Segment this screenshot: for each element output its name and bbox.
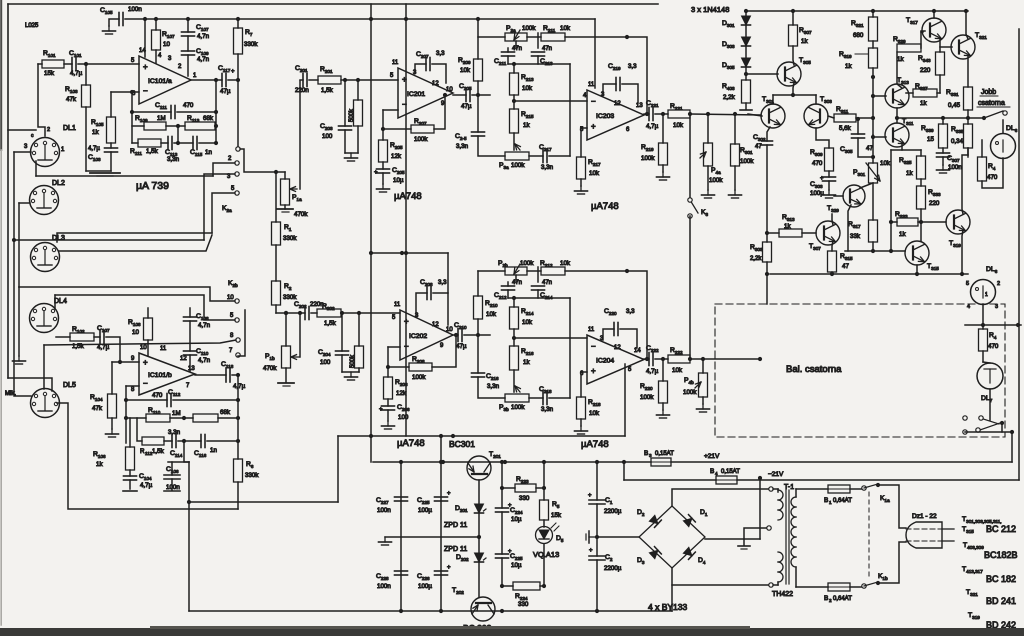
- terminal: [769, 487, 773, 587]
- wire: [871, 155, 875, 163]
- svg-text:1k: 1k: [784, 223, 791, 230]
- wire: [967, 148, 969, 155]
- ground: [103, 26, 116, 34]
- resistor R102: [70, 326, 94, 350]
- text 3x1N4148: [691, 5, 729, 14]
- capacitor C309: [840, 134, 873, 154]
- wire: [796, 567, 828, 587]
- svg-text:IC204: IC204: [596, 358, 614, 365]
- wire: [569, 64, 571, 156]
- svg-text:4,7n: 4,7n: [198, 357, 211, 364]
- svg-text:2: 2: [997, 281, 1000, 287]
- wire: [872, 11, 874, 17]
- wire: [383, 128, 411, 130]
- wire: [56, 336, 70, 338]
- svg-text:10µ: 10µ: [511, 516, 522, 523]
- svg-text:12: 12: [432, 322, 439, 328]
- ground: [702, 190, 715, 198]
- wire: [832, 241, 833, 251]
- svg-text:14: 14: [634, 348, 641, 354]
- potentiometer P301: [853, 160, 891, 183]
- resistor R339: [921, 124, 948, 148]
- svg-text:−21V: −21V: [768, 471, 784, 478]
- wire: [514, 370, 520, 392]
- resistor R224: [513, 582, 540, 608]
- resistor R317: [848, 220, 878, 242]
- contact 2: [228, 156, 239, 165]
- wire pin6: [111, 91, 139, 93]
- capacitor C1: [588, 493, 622, 515]
- wire: [131, 92, 133, 143]
- wire: [871, 242, 875, 253]
- transistor T307: [809, 221, 840, 251]
- node: [12, 238, 16, 242]
- resistor R210: [474, 296, 499, 319]
- capacitor C106: [164, 466, 180, 491]
- wire: [285, 368, 287, 382]
- svg-text:2,2k: 2,2k: [723, 94, 736, 101]
- resistor R2: [272, 281, 298, 305]
- switch K1a: [850, 483, 890, 503]
- resistor R217: [577, 157, 602, 179]
- wire: [512, 95, 516, 109]
- wire: [357, 80, 359, 153]
- wire mid row: [514, 100, 587, 102]
- svg-text:−: −: [143, 379, 148, 388]
- svg-text:47n: 47n: [542, 46, 552, 52]
- svg-text:2200µ: 2200µ: [604, 565, 622, 572]
- node: [369, 17, 408, 21]
- svg-text:10: 10: [132, 329, 139, 336]
- svg-text:B: B: [710, 468, 714, 475]
- wire: [793, 46, 794, 65]
- wire: [595, 462, 599, 611]
- svg-text:47µ: 47µ: [456, 343, 467, 350]
- connector DL1: [24, 125, 76, 167]
- svg-text:14: 14: [139, 48, 146, 54]
- wire: [170, 416, 193, 420]
- svg-text:470: 470: [812, 160, 823, 167]
- resistor R329: [893, 36, 921, 63]
- wire: [828, 181, 830, 190]
- ground: [345, 372, 358, 380]
- wire: [671, 453, 1012, 462]
- connector DL6b: [966, 266, 1000, 310]
- capacitor C110: [184, 348, 211, 364]
- wire: [155, 50, 157, 63]
- capacitor C216: [472, 373, 500, 390]
- wire: [453, 333, 458, 337]
- wire pin11 IC203: [594, 19, 596, 88]
- svg-text:12: 12: [614, 345, 621, 351]
- wire: [477, 95, 479, 132]
- wire: [536, 486, 546, 490]
- wire: [569, 298, 571, 398]
- wire to c7: [238, 310, 245, 356]
- ground: [377, 184, 390, 192]
- text uA748b: [591, 201, 619, 212]
- wire: [773, 95, 816, 104]
- wire: [110, 143, 112, 148]
- contact 7: [229, 348, 240, 357]
- wire speaker row: [895, 116, 984, 120]
- capacitor C303: [810, 177, 836, 197]
- resistor R220: [640, 381, 668, 403]
- resistor R101: [42, 50, 64, 77]
- wire: [240, 149, 285, 172]
- wire: [537, 33, 539, 48]
- ground: [278, 383, 294, 386]
- potentiometer P3a: [499, 152, 529, 170]
- svg-text:47n: 47n: [512, 46, 522, 52]
- svg-text:Jobb: Jobb: [981, 89, 996, 96]
- svg-text:µA 739: µA 739: [136, 180, 169, 192]
- contact: [963, 416, 967, 434]
- wire wiper: [299, 313, 301, 357]
- wire: [38, 64, 45, 136]
- plug pins: [906, 529, 954, 541]
- svg-text:330: 330: [519, 495, 530, 502]
- svg-text:µA748: µA748: [394, 191, 422, 202]
- node: [130, 110, 218, 114]
- resistor R111: [130, 139, 161, 156]
- wire to c5b: [55, 295, 235, 320]
- wire: [816, 128, 829, 148]
- bridge diamond: [639, 506, 705, 568]
- wire: [597, 536, 639, 538]
- wire: [508, 62, 570, 66]
- svg-text:33k: 33k: [850, 233, 861, 240]
- wire: [237, 482, 239, 509]
- wire: [164, 440, 172, 442]
- capacitor C101: [69, 50, 83, 77]
- svg-text:3: 3: [995, 304, 998, 310]
- text 4xBY133: [648, 602, 687, 612]
- text T301: [762, 96, 774, 104]
- wire: [477, 271, 479, 296]
- wire: [919, 209, 923, 241]
- zener D202: [444, 546, 486, 562]
- wire: [275, 245, 277, 281]
- wire to contact2: [213, 163, 235, 176]
- resistor R107: [152, 30, 176, 50]
- svg-text:470: 470: [987, 174, 998, 181]
- resistor R323: [895, 211, 918, 238]
- resistor R109: [135, 115, 166, 130]
- capacitor C213: [532, 46, 554, 66]
- wire: [344, 80, 346, 126]
- svg-text:+: +: [588, 493, 592, 499]
- switch K3: [688, 198, 709, 218]
- capacitor C224: [496, 503, 524, 523]
- switch K1b: [850, 573, 888, 588]
- wire: [580, 179, 582, 186]
- connector DL6: [991, 125, 1018, 159]
- svg-text:47µ: 47µ: [220, 88, 231, 95]
- wire: [478, 136, 505, 156]
- svg-text:100n: 100n: [377, 583, 391, 590]
- wire: [195, 374, 226, 376]
- svg-text:3,3n: 3,3n: [541, 406, 554, 413]
- resistor R331: [946, 87, 973, 110]
- wire: [338, 434, 625, 438]
- svg-text:4: 4: [715, 471, 718, 476]
- contact pole: [236, 147, 240, 151]
- wire: [655, 357, 668, 361]
- pin labels: [580, 82, 643, 133]
- svg-text:Dz1 - 22: Dz1 - 22: [912, 513, 937, 520]
- svg-text:B: B: [644, 450, 648, 457]
- transistor T311: [885, 118, 914, 147]
- wire: [702, 359, 704, 373]
- wire: [147, 308, 149, 318]
- wire: [340, 311, 400, 315]
- wire: [189, 321, 191, 351]
- svg-text:IC101/a: IC101/a: [148, 78, 172, 85]
- ground: [382, 421, 395, 429]
- svg-text:100k: 100k: [522, 25, 536, 32]
- svg-text:ZPD 11: ZPD 11: [444, 546, 467, 553]
- svg-text:1k: 1k: [899, 231, 906, 238]
- wire: [275, 172, 277, 222]
- wire: [207, 439, 240, 443]
- svg-text:10: 10: [446, 327, 453, 333]
- wire: [967, 110, 969, 118]
- svg-text:4,7n: 4,7n: [198, 322, 211, 329]
- wire: [766, 274, 768, 304]
- resistor R212: [540, 260, 571, 275]
- wire emitter T317: [939, 39, 941, 52]
- wire: [933, 11, 935, 18]
- fuse B3: [644, 450, 674, 466]
- wire: [705, 476, 771, 549]
- capacitor C107b: [97, 325, 110, 351]
- capacitor C210: [454, 322, 467, 350]
- wire DL3 line: [59, 235, 212, 251]
- svg-text:1: 1: [829, 500, 832, 505]
- wire: [565, 35, 647, 114]
- transistor T321: [951, 32, 987, 59]
- svg-text:500k: 500k: [349, 108, 355, 122]
- svg-text:2200µ: 2200µ: [604, 508, 622, 515]
- svg-text:470: 470: [988, 343, 999, 350]
- wire: [284, 172, 286, 179]
- potentiometer P1a: [281, 179, 309, 218]
- transistor T201 BC301: [449, 439, 501, 480]
- svg-text:11: 11: [588, 327, 595, 333]
- wire: [177, 111, 216, 113]
- wire: [300, 79, 303, 81]
- svg-text:+: +: [231, 69, 235, 75]
- diode D301: [722, 16, 751, 28]
- wire: [623, 462, 625, 480]
- wire: [358, 313, 360, 372]
- wire: [171, 479, 173, 490]
- wire: [967, 56, 969, 87]
- linkage dashed: [868, 492, 870, 580]
- wire: [514, 133, 520, 150]
- resistor R105: [91, 117, 116, 143]
- wire: [982, 325, 984, 362]
- wire: [603, 84, 616, 95]
- wire pin5 IC204: [624, 364, 626, 436]
- zener D201: [444, 504, 486, 529]
- capacitor C222: [646, 345, 659, 375]
- resistor R205: [379, 140, 404, 162]
- resistor R333: [917, 186, 942, 209]
- wire base329: [834, 195, 843, 197]
- wire: [126, 385, 139, 387]
- wire bottom rail: [189, 609, 672, 613]
- wire: [989, 389, 991, 420]
- wire: [158, 53, 188, 76]
- svg-text:−: −: [143, 87, 148, 96]
- wire: [620, 329, 637, 348]
- capacitor C108: [184, 313, 211, 329]
- svg-text:0,64AT: 0,64AT: [833, 498, 852, 504]
- resistor R343: [918, 52, 945, 75]
- capacitor C225: [417, 491, 451, 514]
- wire: [477, 335, 479, 373]
- op-amp IC101/b: [139, 353, 195, 395]
- svg-text:+: +: [143, 358, 148, 367]
- wire: [478, 377, 505, 398]
- wire: [939, 75, 941, 93]
- diode D3: [637, 547, 661, 565]
- wire: [232, 373, 240, 377]
- wire: [507, 282, 509, 298]
- svg-text:µA748: µA748: [397, 438, 425, 449]
- plug Dz1-22: [906, 513, 942, 548]
- svg-text:3,3: 3,3: [438, 279, 447, 286]
- op-amp IC203: [587, 90, 644, 140]
- wire: [189, 308, 191, 317]
- svg-text:+: +: [374, 170, 378, 176]
- wire: [543, 488, 545, 500]
- svg-text:VQ.A13: VQ.A13: [533, 550, 559, 559]
- capacitor C118: [221, 361, 246, 390]
- resistor R208: [409, 356, 432, 381]
- text type list: [962, 516, 1018, 630]
- wire: [848, 205, 851, 251]
- svg-text:3,3: 3,3: [626, 308, 635, 315]
- wire: [793, 83, 794, 95]
- wire: [662, 403, 664, 410]
- pin labels: [580, 327, 641, 377]
- wire row2: [132, 125, 144, 127]
- ground: [697, 404, 710, 412]
- wire: [644, 357, 649, 361]
- op-amp IC202: [400, 310, 453, 360]
- resistor R213: [510, 73, 535, 95]
- wire: [672, 584, 770, 586]
- wire: [344, 130, 346, 153]
- wire K2a pole: [237, 80, 239, 146]
- wire bar: [164, 490, 180, 492]
- switch K4: [976, 421, 1004, 432]
- wire: [707, 114, 709, 143]
- wire: [387, 410, 389, 421]
- svg-text:10k: 10k: [672, 367, 683, 374]
- wire: [856, 117, 860, 134]
- svg-text:+: +: [447, 565, 451, 571]
- svg-text:100: 100: [320, 359, 331, 366]
- svg-text:B: B: [824, 595, 828, 602]
- wire: [662, 359, 664, 381]
- border left scan edge: [0, 0, 2, 625]
- connector DL7: [977, 363, 1003, 403]
- svg-text:−: −: [591, 97, 596, 106]
- wire to c10: [19, 287, 235, 301]
- capacitor C114: [168, 429, 183, 458]
- svg-text:4,7µ: 4,7µ: [140, 482, 153, 489]
- svg-text:1,5k: 1,5k: [146, 148, 159, 155]
- text K2b: [228, 280, 238, 288]
- wire: [110, 152, 112, 171]
- pin labels: [392, 302, 453, 349]
- svg-text:IC101/b: IC101/b: [148, 372, 172, 379]
- wire: [174, 126, 193, 145]
- wire: [14, 151, 31, 153]
- wire: [967, 118, 969, 124]
- wire wiper: [299, 81, 301, 189]
- dashed box left channel: [715, 304, 1005, 437]
- svg-text:10: 10: [140, 345, 147, 351]
- svg-text:IC203: IC203: [596, 113, 614, 120]
- svg-text:15k: 15k: [44, 70, 55, 77]
- wire: [655, 112, 668, 116]
- svg-text:1k: 1k: [523, 122, 530, 129]
- wire base: [478, 480, 480, 504]
- wire supply row: [369, 251, 448, 293]
- wire: [85, 64, 87, 85]
- capacitor C227: [376, 497, 408, 514]
- svg-text:470k: 470k: [294, 211, 308, 218]
- wire: [871, 68, 875, 135]
- ground: [586, 531, 597, 543]
- svg-text:+: +: [404, 317, 409, 326]
- wire bus y233: [57, 233, 212, 242]
- svg-text:+: +: [589, 548, 593, 554]
- resistor R110: [146, 407, 181, 422]
- ground: [575, 186, 588, 194]
- connector DL3: [31, 235, 65, 272]
- ground: [379, 537, 392, 545]
- contact 5b: [230, 313, 239, 322]
- capacitor C221: [646, 100, 659, 130]
- capacitor C111: [155, 102, 194, 119]
- capacitor C208: [420, 279, 447, 300]
- wire: [603, 329, 614, 340]
- pin labels: [131, 345, 195, 393]
- svg-text:−: −: [591, 342, 596, 351]
- svg-text:10k: 10k: [522, 85, 533, 92]
- wire: [644, 112, 649, 116]
- resistor R207: [411, 118, 434, 143]
- wire base T313: [873, 95, 886, 97]
- svg-text:11: 11: [160, 346, 167, 352]
- resistor 1M: [350, 346, 364, 368]
- resistor R223: [515, 476, 536, 502]
- wire: [478, 537, 480, 597]
- wire: [35, 161, 37, 176]
- wire: [580, 372, 582, 397]
- wire: [112, 360, 122, 394]
- wire supply h: [189, 501, 338, 503]
- svg-text:BC 182: BC 182: [986, 574, 1016, 584]
- svg-text:220: 220: [920, 67, 931, 74]
- svg-text:1k: 1k: [523, 359, 530, 366]
